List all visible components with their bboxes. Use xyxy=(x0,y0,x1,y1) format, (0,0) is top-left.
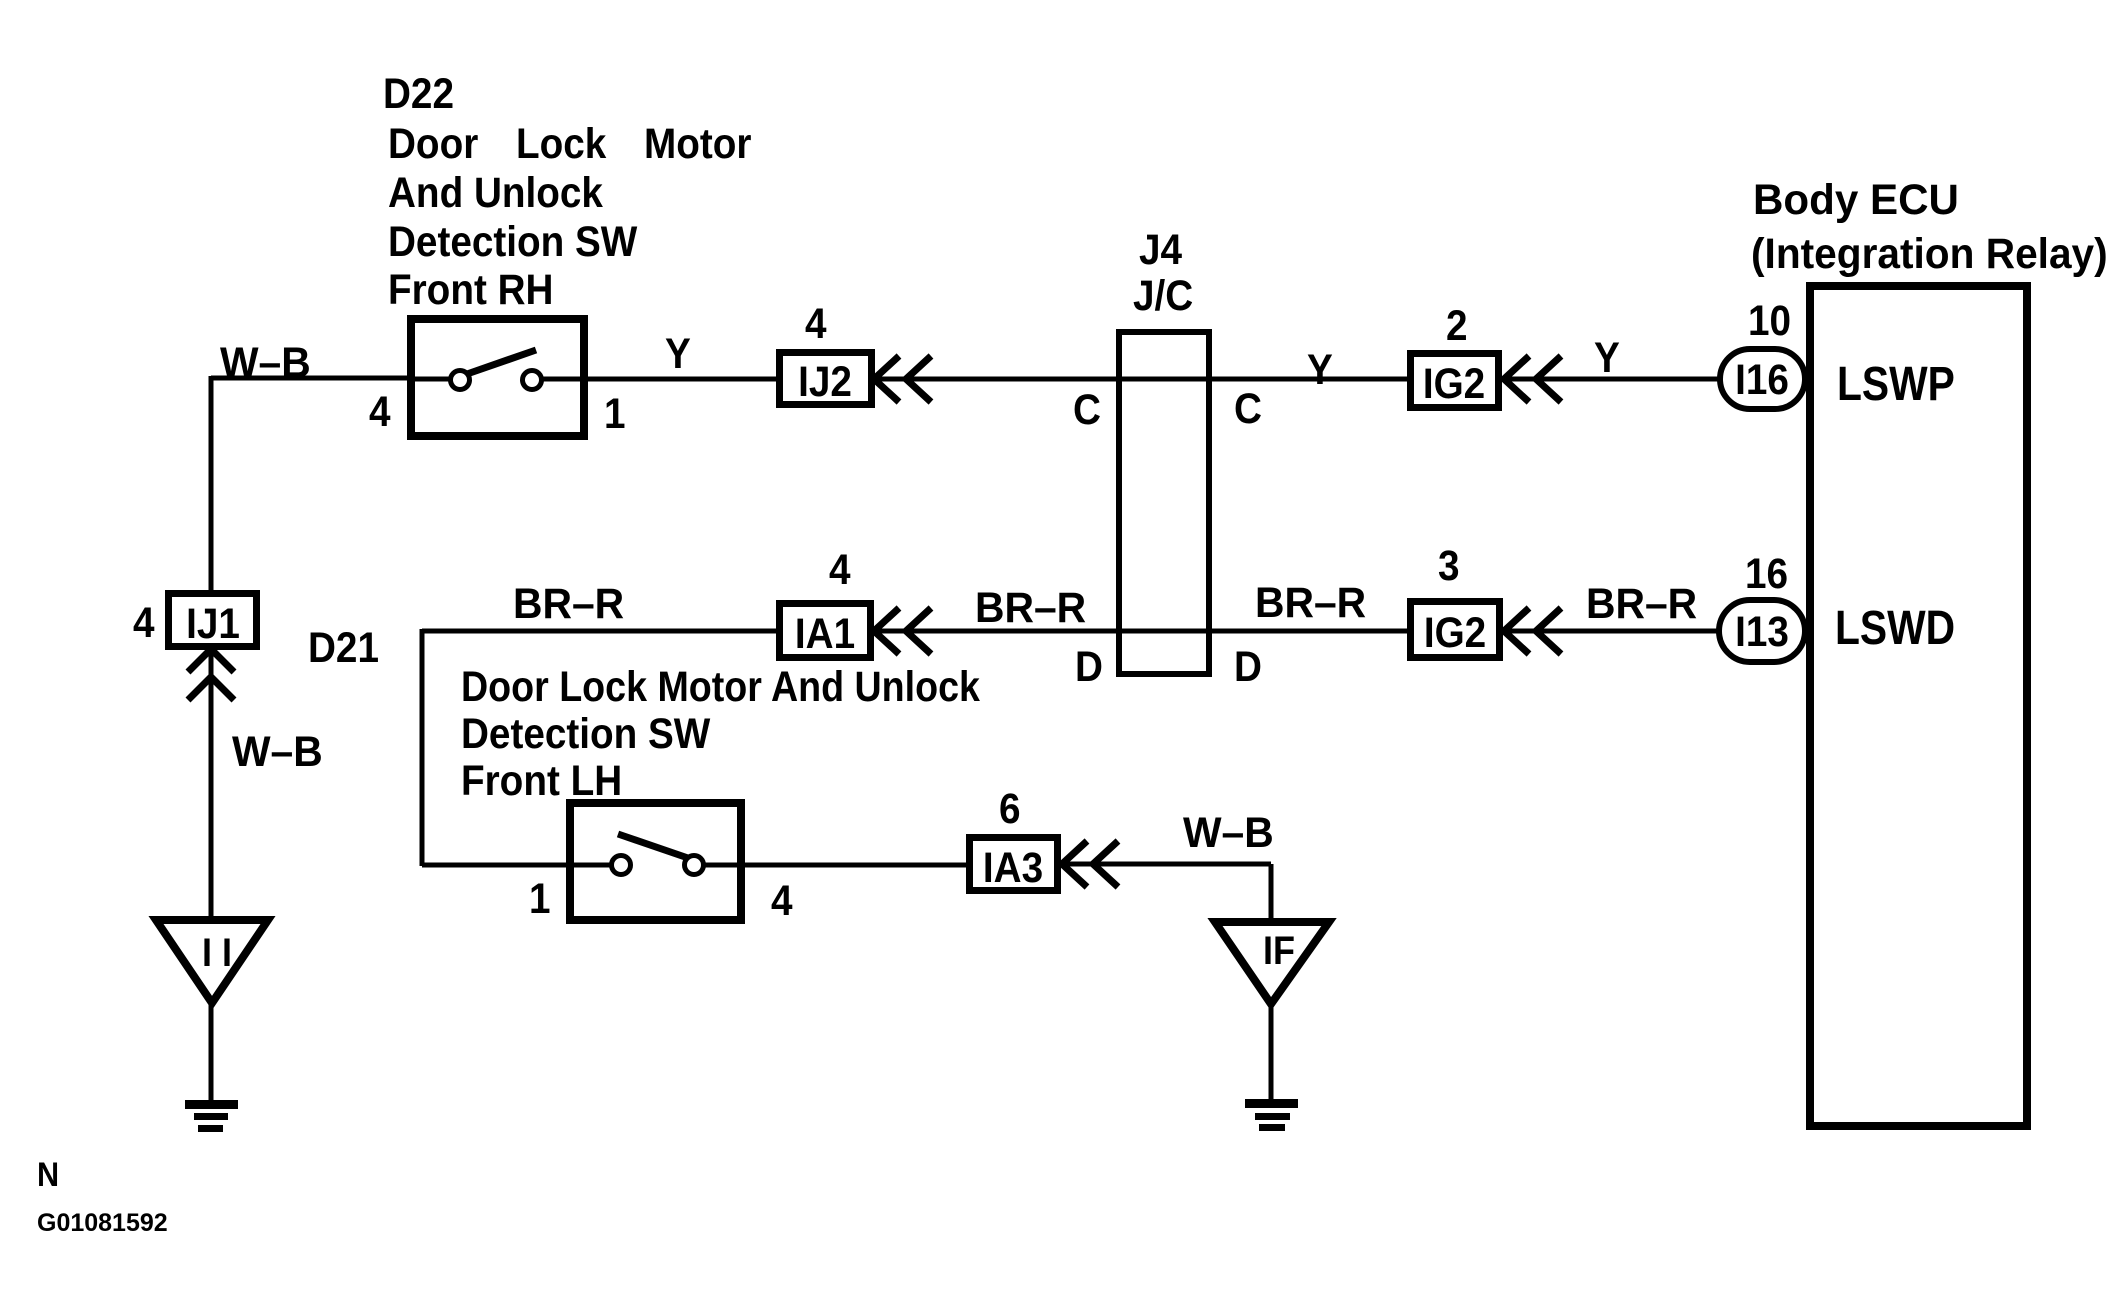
svg-text:D21: D21 xyxy=(308,623,379,671)
connector IJ1 xyxy=(169,594,257,648)
svg-text:I16: I16 xyxy=(1735,355,1789,403)
wire from D21 branch to switch D21 xyxy=(422,863,570,868)
svg-text:LSWD: LSWD xyxy=(1835,602,1955,655)
switch D21 (Door Lock Motor And Unlock Detection SW Front LH) xyxy=(570,803,741,920)
wire riser of D21 branch xyxy=(420,629,425,866)
wire W-B horizontal to D22 pin 4 xyxy=(211,376,411,381)
svg-text:G01081592: G01081592 xyxy=(37,1209,168,1237)
svg-text:Y: Y xyxy=(1307,345,1333,393)
wire Y from IG2 to I16 xyxy=(1504,377,1725,382)
svg-text:(Integration Relay): (Integration Relay) xyxy=(1751,229,2108,277)
svg-text:6: 6 xyxy=(999,784,1021,832)
svg-text:Y: Y xyxy=(665,329,691,377)
wire from II apex to ground xyxy=(209,1000,214,1100)
ground symbol left xyxy=(185,1100,238,1132)
switch D22 (Door Lock Motor And Unlock Detection SW Front RH) xyxy=(411,319,584,436)
svg-text:10: 10 xyxy=(1748,296,1791,344)
chevron arrows at IA1 xyxy=(874,608,931,654)
svg-text:Body ECU: Body ECU xyxy=(1753,176,1959,224)
chevron arrows at IG2 row1 xyxy=(1504,356,1561,402)
svg-text:D: D xyxy=(1234,642,1262,690)
connector I13 xyxy=(1719,600,1805,662)
svg-text:C: C xyxy=(1073,385,1101,433)
svg-text:W–B: W–B xyxy=(220,338,311,386)
svg-text:IF: IF xyxy=(1263,929,1295,973)
svg-text:W–B: W–B xyxy=(1183,808,1274,856)
svg-text:IA3: IA3 xyxy=(983,843,1043,891)
svg-text:16: 16 xyxy=(1745,549,1788,597)
svg-text:4: 4 xyxy=(369,387,391,435)
svg-text:IA1: IA1 xyxy=(795,609,855,657)
svg-text:I13: I13 xyxy=(1735,607,1789,655)
svg-text:Door Lock Motor: Door Lock Motor xyxy=(388,119,752,167)
svg-text:IG2: IG2 xyxy=(1423,359,1485,407)
svg-text:C: C xyxy=(1234,384,1262,432)
svg-text:And Unlock: And Unlock xyxy=(388,168,603,216)
ground connector triangle II xyxy=(156,920,268,1003)
wire Y from D22 pin1 to connector IJ2 xyxy=(584,377,779,382)
chevron arrows at IG2 row2 xyxy=(1504,608,1561,654)
svg-text:W–B: W–B xyxy=(232,727,323,775)
wire W-B from IA3 chevrons to IF branch xyxy=(1062,862,1271,867)
svg-text:1: 1 xyxy=(529,874,551,922)
wire BR-R from IG2 row2 to I13 xyxy=(1504,629,1725,634)
svg-text:BR–R: BR–R xyxy=(1586,579,1697,627)
svg-text:D22: D22 xyxy=(383,69,454,117)
svg-text:IJ2: IJ2 xyxy=(798,357,852,405)
wire BR-R from D21 branch to IA1 xyxy=(422,629,779,634)
chevron arrows at IJ2 xyxy=(874,356,931,402)
wire from IJ1 down to ground triangle II xyxy=(209,650,214,922)
wire from IF apex to ground xyxy=(1269,1000,1274,1099)
svg-text:Front RH: Front RH xyxy=(388,265,553,313)
connector I16 xyxy=(1720,349,1805,409)
ground connector triangle IF xyxy=(1215,922,1329,1004)
svg-text:BR–R: BR–R xyxy=(1255,578,1366,626)
svg-text:J4: J4 xyxy=(1139,225,1182,273)
connector IA3 xyxy=(970,838,1058,892)
chevron arrows at IA3 xyxy=(1062,841,1118,887)
svg-text:Detection SW: Detection SW xyxy=(461,709,711,757)
connector IG2 row2 xyxy=(1411,602,1500,658)
connector IG2 row1 xyxy=(1411,354,1499,408)
wire BR-R from IA1 chevrons to J4 xyxy=(874,629,1410,634)
svg-text:Detection SW: Detection SW xyxy=(388,217,638,265)
connector IA1 xyxy=(780,604,871,658)
chevron arrows below IJ1 pointing up xyxy=(188,649,234,700)
svg-text:IJ1: IJ1 xyxy=(186,599,240,647)
svg-text:Front LH: Front LH xyxy=(461,756,622,804)
ground symbol right xyxy=(1245,1099,1298,1131)
svg-text:J/C: J/C xyxy=(1133,271,1193,319)
svg-text:4: 4 xyxy=(771,876,793,924)
svg-text:IG2: IG2 xyxy=(1424,608,1486,656)
wire riser from W-B wire down to IJ1 xyxy=(209,376,214,592)
svg-text:N: N xyxy=(37,1156,59,1194)
svg-text:Door Lock Motor And Unlock: Door Lock Motor And Unlock xyxy=(461,662,980,711)
svg-text:BR–R: BR–R xyxy=(975,583,1086,631)
Body ECU (Integration Relay) box xyxy=(1810,286,2027,1126)
wire Y from IJ2 chevrons to J4 xyxy=(874,377,1410,382)
svg-text:LSWP: LSWP xyxy=(1837,358,1955,411)
svg-text:4: 4 xyxy=(133,598,155,646)
svg-text:D: D xyxy=(1075,642,1103,690)
svg-text:I I: I I xyxy=(202,931,232,975)
junction connector J4 box xyxy=(1119,332,1209,674)
svg-text:Y: Y xyxy=(1594,333,1620,381)
svg-text:1: 1 xyxy=(604,389,626,437)
svg-text:4: 4 xyxy=(805,299,827,347)
svg-text:3: 3 xyxy=(1438,541,1460,589)
svg-text:BR–R: BR–R xyxy=(513,579,624,627)
svg-text:4: 4 xyxy=(829,545,851,593)
connector IJ2 xyxy=(780,353,872,406)
wire riser down to triangle IF xyxy=(1269,864,1274,924)
wire from D21 pin4 to IA3 xyxy=(741,863,969,868)
svg-text:2: 2 xyxy=(1446,301,1468,349)
